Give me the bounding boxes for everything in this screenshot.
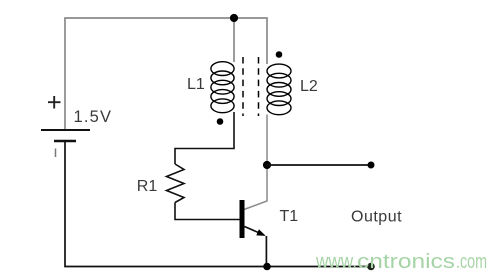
svg-text:L2: L2 xyxy=(300,78,318,95)
wire: L1 top drop from top junction (gray) xyxy=(233,18,235,62)
battery BT1 : short negative plate xyxy=(54,140,76,142)
wire: battery + top rail + L2 top drop (gray) xyxy=(65,18,267,130)
wire: emitter down to bottom rail xyxy=(265,236,267,267)
svg-text:Output: Output xyxy=(351,209,402,226)
transformer core dashed line right xyxy=(258,57,260,116)
resistor R1 zigzag xyxy=(167,164,185,203)
wire: L2 bottom to collector of T1 (gray) xyxy=(244,115,267,210)
wire: output line top xyxy=(267,164,371,166)
transistor T1 base bar xyxy=(240,200,245,238)
transistor T1 emitter line xyxy=(245,227,260,234)
node: emitter junction dot on bottom rail xyxy=(263,263,271,271)
node: collector junction dot xyxy=(263,161,271,169)
svg-text:T1: T1 xyxy=(280,208,299,225)
svg-text:R1: R1 xyxy=(137,178,158,195)
svg-text:www.cntronics.com: www.cntronics.com xyxy=(315,251,487,273)
transistor T1 emitter arrow xyxy=(256,229,266,236)
battery plus sign xyxy=(48,96,61,109)
svg-text:L1: L1 xyxy=(187,76,205,93)
inductor L2 (secondary coil, 5 loops) xyxy=(267,64,291,115)
wire: R1 bottom to T1 base xyxy=(175,203,240,220)
wire: battery negative down + bottom rail xyxy=(65,141,371,267)
L1 phase dot xyxy=(217,118,224,125)
inductor L1 (primary coil, 5 loops) xyxy=(211,62,234,113)
svg-text:1.5V: 1.5V xyxy=(74,108,113,126)
output terminal dot top xyxy=(368,162,375,169)
battery minus tick xyxy=(55,149,57,158)
battery BT1 1.5V : long positive plate xyxy=(41,129,90,131)
L2 phase dot xyxy=(276,51,283,58)
wire: L1 bottom to R1 top xyxy=(175,112,234,164)
transformer core dashed line left xyxy=(242,57,244,116)
output terminal dot bottom xyxy=(367,263,375,271)
node: top junction dot xyxy=(230,14,238,22)
